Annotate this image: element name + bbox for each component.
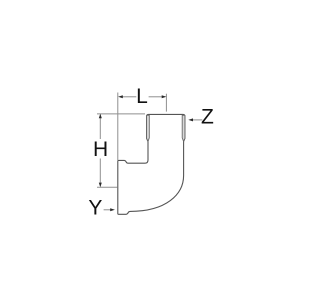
dimension L extension line right (165, 94, 167, 112)
dimension H extension line top (97, 113, 145, 115)
arrowhead Y (110, 208, 115, 211)
dimension L extension line left (117, 93, 119, 161)
arrowhead L left (118, 95, 123, 98)
dimension L line left segment (122, 96, 137, 98)
dimension H line top segment (99, 118, 101, 139)
svg-text:L: L (136, 85, 148, 108)
dimension H line bottom segment (99, 159, 101, 184)
svg-text:Z: Z (201, 105, 214, 128)
dimension H extension line bottom (97, 186, 117, 188)
socket wall thickness right (182, 115, 185, 141)
Z pointer arrow line (193, 119, 203, 121)
arrowhead H up (99, 114, 102, 119)
arrowhead L right (162, 95, 167, 98)
svg-text:H: H (93, 138, 108, 161)
arrowhead H down (99, 183, 102, 188)
svg-text:Y: Y (88, 196, 102, 219)
Y pointer arrow line (104, 209, 111, 211)
arrowhead Z (188, 118, 193, 121)
elbow fitting body outline (118, 114, 185, 214)
dimension L line right segment (149, 96, 163, 98)
socket wall thickness left (147, 115, 150, 141)
